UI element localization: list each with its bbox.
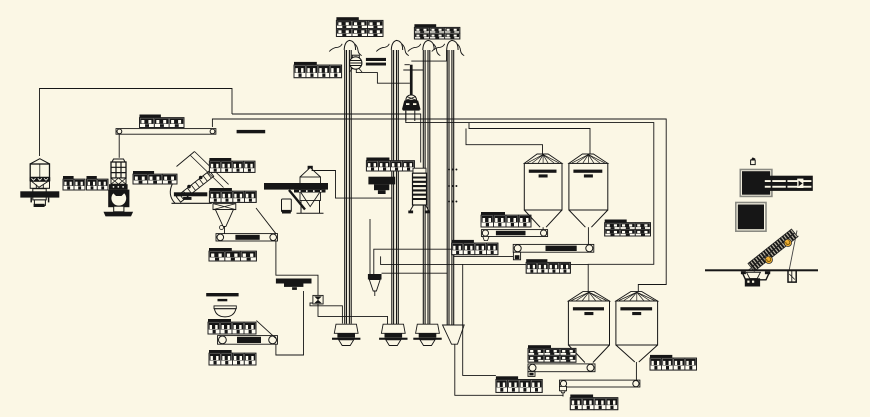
elevator E1 head [329, 40, 362, 55]
conveyor C1 [481, 230, 547, 237]
table T11 [209, 350, 256, 365]
box under C2 left [513, 252, 520, 260]
wire L3 inner loop to silo A2 [406, 111, 654, 292]
right pit [788, 271, 796, 282]
conveyor C4 [560, 380, 640, 387]
elevator E1 boot [332, 324, 360, 345]
table T17 [528, 345, 576, 362]
wire E2 to E3 [403, 69, 423, 71]
conveyor C3 [528, 364, 595, 372]
wire pipe to E4 [411, 50, 446, 61]
elevator E1 legs [345, 50, 352, 324]
wire T6 to C5 diagonal [256, 208, 276, 234]
ellipsis dots 1 [448, 169, 457, 171]
wire valve to boot2 [318, 304, 388, 324]
black square S1 [740, 170, 772, 197]
cyclone M5 [402, 65, 421, 121]
silo A1 [524, 154, 562, 227]
wire feed tank1 L-shape [40, 89, 233, 157]
black bar B1 [264, 183, 328, 190]
black bar M10 tab [218, 299, 228, 301]
wire silo A1 to C1 [542, 227, 544, 230]
funnel M12 [368, 274, 382, 296]
glyph small valve right [751, 157, 756, 164]
table T6 [209, 188, 256, 202]
elevator E3 head [408, 40, 441, 55]
ellipsis dots 3 [448, 201, 457, 203]
silo B1 [569, 154, 608, 227]
silo A2 [568, 292, 609, 363]
left pit [741, 271, 770, 286]
elevator E3 boot [413, 324, 441, 345]
ellipsis dots 2 [448, 185, 457, 187]
hanger under C1 [483, 237, 489, 241]
table T9 [209, 248, 256, 261]
wire silo B2 stem [635, 362, 637, 381]
black dash pair top [366, 58, 386, 61]
wire silo B1 to C2 [587, 227, 589, 244]
wire E2 spout to pipe [405, 64, 410, 66]
wire T10 to C6 diagonal [256, 321, 276, 339]
inclined conveyor right [747, 229, 799, 271]
black bar M10 [206, 293, 238, 296]
wire L1 to bin [232, 114, 421, 163]
table T20 [496, 376, 542, 392]
wire C6 to M8 riser [276, 291, 304, 355]
table T7 [133, 171, 177, 184]
trailer icon [763, 176, 812, 191]
table T13 [452, 240, 498, 255]
wire boot4 to T20 [463, 264, 496, 375]
wire boot4b to C4 box [455, 344, 563, 396]
conveyor C0 [116, 129, 216, 135]
wire fan f4 [382, 272, 448, 274]
funnel F4 boot [443, 325, 465, 344]
elevator E2 boot [379, 324, 407, 345]
bowl M9 [214, 306, 236, 317]
table T21 [526, 259, 570, 273]
wire branch to silo B1 [469, 123, 590, 155]
rotary valve V1 [349, 55, 362, 72]
wire branch to silo A1 [466, 129, 543, 155]
black dash D1 [237, 130, 266, 133]
elevator E2 head [376, 40, 409, 55]
conveyor C6 [218, 336, 278, 345]
wire fan f2 [380, 256, 382, 264]
table T8a [63, 176, 85, 190]
table T4 [366, 158, 414, 172]
box under C4 left [560, 386, 567, 396]
table T1 [336, 17, 383, 36]
wire sieve to E2 [312, 171, 392, 199]
elevator E2 legs [392, 50, 399, 325]
valve M11 bowtie [313, 295, 323, 304]
table T3 [294, 62, 342, 78]
conveyor C2 [513, 244, 594, 252]
machine M6 striped bin [408, 168, 429, 213]
machine M1 tank [20, 159, 59, 207]
box under C3 left [528, 372, 535, 377]
wire fan f1 [374, 249, 517, 274]
machine M2 grinder [104, 159, 134, 216]
black square S2 [736, 203, 766, 232]
black dash pair bottom [366, 63, 386, 66]
elevator E4 head [432, 40, 465, 55]
machine M4 sieve [282, 166, 324, 214]
wire grinder hanger [118, 135, 120, 158]
wire M6 vertical [369, 219, 371, 274]
black stack M7 [368, 177, 395, 194]
machine M3 inclined screen [170, 152, 228, 204]
wire valve to boot1 [310, 303, 342, 324]
elevator E3 legs [423, 50, 430, 327]
black bar B1 subrow [294, 190, 326, 193]
table T8b [87, 176, 109, 190]
elevator E4 legs [447, 50, 454, 325]
wire L2 outer loop to silo B2 [212, 119, 666, 292]
hopper H1 [213, 204, 236, 234]
table T22 [140, 115, 185, 128]
table T19 [570, 395, 618, 410]
table T16 [605, 220, 651, 237]
wire fan f3 long [381, 263, 589, 265]
ground line right [705, 269, 818, 271]
table T18 [650, 355, 697, 370]
conveyor C5 [216, 234, 278, 241]
table T12 [481, 212, 531, 227]
wire valve stair to pipe [356, 69, 410, 84]
table T10 [208, 319, 256, 334]
silo B2 [616, 292, 658, 362]
table T2 [414, 24, 459, 39]
wire C5 to valve [276, 241, 318, 295]
table T5 [209, 158, 255, 172]
black stack M8 [276, 279, 312, 290]
